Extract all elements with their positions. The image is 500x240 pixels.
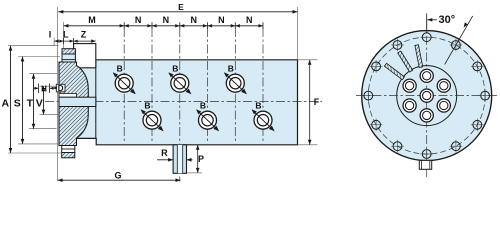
port column centerline 6	[262, 28, 264, 144]
hub circle	[397, 66, 457, 126]
port column centerline 1	[123, 28, 125, 144]
port ring lower-left	[403, 99, 416, 112]
dimension row I,L,Z	[49, 29, 96, 46]
crosshair horizontal	[356, 95, 497, 97]
svg-text:I: I	[49, 29, 52, 39]
svg-text:Z: Z	[81, 29, 87, 39]
dimension A	[2, 46, 62, 153]
30 degree dimension	[427, 14, 473, 65]
shaft nut top (hatched)	[62, 49, 75, 54]
crosshair vertical	[426, 20, 428, 178]
dimension V	[36, 86, 58, 114]
dimension G	[58, 171, 181, 182]
bottom stub pipe (end view)	[419, 160, 431, 169]
port B4	[141, 101, 164, 132]
svg-text:A: A	[2, 97, 10, 109]
dimension row M,N,N,N,N,N	[64, 15, 264, 48]
horizontal centerline	[45, 101, 322, 103]
svg-text:B: B	[200, 101, 206, 111]
svg-text:F: F	[314, 97, 320, 107]
svg-text:B: B	[172, 64, 178, 74]
flange slot 3 (hatched)	[384, 63, 404, 79]
port ring upper-right	[437, 79, 450, 92]
dimension F	[298, 60, 320, 145]
collar joint line	[95, 60, 97, 139]
dimension P	[187, 145, 205, 173]
port ring upper-left	[403, 79, 416, 92]
shaft nut bottom (hatched)	[62, 153, 75, 158]
port ring bottom	[420, 109, 433, 122]
svg-text:N: N	[218, 15, 225, 25]
port column centerline 3	[179, 28, 181, 182]
svg-text:G: G	[114, 171, 121, 181]
port column centerline 5	[234, 28, 236, 144]
svg-text:N: N	[135, 15, 142, 25]
svg-text:30°: 30°	[439, 14, 456, 26]
bolt holes x12 with center marks	[362, 33, 491, 161]
svg-text:E: E	[178, 2, 184, 12]
dimension E	[58, 2, 298, 181]
port ring top	[420, 69, 433, 82]
svg-text:N: N	[246, 15, 253, 25]
port ring lower-right	[437, 99, 450, 112]
svg-text:M: M	[88, 15, 96, 25]
keyway	[59, 94, 77, 98]
port column centerline 4	[207, 28, 209, 144]
svg-text:B: B	[144, 101, 150, 111]
svg-text:B: B	[117, 64, 123, 74]
svg-text:H: H	[41, 84, 47, 93]
dimension S	[14, 57, 60, 144]
dimension T	[27, 74, 57, 129]
svg-text:P: P	[198, 154, 204, 164]
flange slot 1 (hatched)	[415, 45, 423, 68]
dimension R	[157, 148, 193, 161]
bearing cap box Z (top-left)	[74, 44, 96, 68]
svg-text:S: S	[14, 97, 21, 109]
label D (boxed) with leader	[53, 84, 65, 93]
drain pipe	[173, 145, 186, 174]
washer bottom	[62, 146, 75, 153]
svg-text:N: N	[190, 15, 197, 25]
housing body (left view)	[74, 60, 298, 145]
port B6	[252, 101, 275, 132]
bolt circle (dashed)	[368, 37, 485, 154]
washer top	[62, 54, 75, 62]
svg-text:L: L	[63, 29, 69, 39]
port B3	[224, 64, 247, 95]
svg-text:N: N	[163, 15, 170, 25]
svg-text:R: R	[161, 148, 168, 158]
port B2	[168, 64, 191, 95]
shaft bore D	[59, 97, 96, 106]
dimension H	[34, 84, 55, 94]
flange with bell hub (hatched section)	[59, 62, 88, 146]
svg-text:B: B	[228, 64, 234, 74]
port B5	[196, 101, 219, 132]
port ring center	[420, 89, 433, 102]
flange slot 2 (hatched)	[398, 51, 413, 72]
flange disc (end view)	[362, 31, 492, 161]
port B1	[113, 64, 136, 95]
svg-text:T: T	[27, 97, 34, 109]
svg-text:V: V	[36, 97, 43, 109]
port column centerline 2	[151, 28, 153, 144]
svg-text:B: B	[255, 101, 261, 111]
svg-text:D: D	[58, 84, 64, 93]
